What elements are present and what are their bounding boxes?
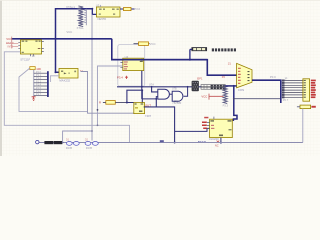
IC U4 box [123, 58, 144, 70]
resistor R2 lead [134, 43, 150, 45]
driver U2 MAX232 box [59, 69, 78, 79]
wire branch into gate upper input [152, 87, 158, 92]
power symbol red [209, 94, 223, 100]
wire branch to U5 left pins [175, 128, 210, 131]
LED DS2 pair [85, 142, 98, 146]
wire U4 left pin to long drop [98, 66, 123, 125]
resistor R2 [139, 42, 149, 46]
wire lower input [142, 97, 158, 99]
switch S1 dashed squares row [212, 48, 236, 51]
LED DS1 pair [66, 142, 79, 146]
wire P1.0 [34, 72, 48, 74]
junction main wire at U4 right [141, 59, 143, 61]
svg-text:NE555: NE555 [98, 17, 107, 21]
fuse F1 [192, 48, 207, 51]
svg-text:VCC: VCC [150, 42, 156, 46]
svg-text:U7A: U7A [149, 83, 154, 87]
wire from R4 down to bottom net [302, 109, 304, 143]
wire P1.1 [34, 75, 48, 77]
wire R3 into U6 [127, 102, 134, 104]
wire from U2 right pin down to U6 bottom [81, 72, 134, 114]
labels red left of U5 [202, 122, 207, 130]
wire: long route from U1 bottom-left pin around the sheet [4, 52, 129, 143]
diode D2 dark body [54, 141, 63, 144]
svg-text:P3.3: P3.3 [223, 104, 229, 108]
junction branch [151, 86, 153, 88]
svg-text:P3.7: P3.7 [174, 100, 180, 104]
bus bar P1 [47, 71, 49, 97]
junction loop top [141, 89, 143, 91]
wire riser from U6 output [155, 99, 157, 107]
wire: main thick net down and across [112, 39, 237, 75]
power symbol red below U4 [125, 76, 128, 79]
connector ladder row2 [201, 87, 225, 89]
svg-text:U3: U3 [96, 3, 100, 7]
power rail VCC bus top of U1 [11, 38, 112, 40]
wire P1.6 [34, 91, 48, 93]
wire U5 bottom pin [220, 138, 222, 143]
svg-text:D1: D1 [66, 138, 70, 142]
svg-text:RST/P: RST/P [6, 41, 14, 45]
wire horizontal feed net [117, 86, 202, 88]
svg-text:XTAL: XTAL [77, 26, 85, 30]
wire: drop into U3 pin2 [92, 9, 96, 15]
ground GND red [32, 97, 36, 101]
resistor R1 lead [120, 8, 134, 10]
junction bridge right [91, 130, 93, 132]
wire thin to connector bus [234, 98, 281, 100]
wire: long thin vertical net at x=92 [91, 14, 93, 140]
junction R3 net [126, 102, 128, 104]
connector CON8 pin rows [282, 80, 303, 99]
svg-text:BEEP: BEEP [198, 140, 206, 144]
svg-text:NC: NC [215, 144, 219, 148]
wire P1.5 [34, 88, 48, 90]
svg-text:R: R [99, 100, 101, 104]
background sheet [0, 0, 320, 156]
group box A around U4 [118, 45, 145, 87]
bottom net wire [39, 142, 303, 144]
svg-text:7407: 7407 [145, 114, 152, 118]
wire P1.7 [34, 95, 48, 97]
wire gate1 out to gate2 in [170, 93, 173, 95]
pane top border [0, 0, 320, 2]
label red right of R4 [311, 106, 315, 108]
junction U6 out riser [174, 142, 176, 144]
wire J1 output to bus [252, 80, 281, 103]
crystal Y1 side rail [84, 9, 86, 26]
svg-text:P3.0: P3.0 [134, 7, 140, 11]
wire P1.4 [34, 85, 48, 87]
wire F1 stub to main [190, 49, 192, 59]
junction gate nets [141, 86, 143, 88]
svg-text:D2: D2 [85, 138, 89, 142]
gate U7B [172, 91, 183, 101]
svg-text:VCC: VCC [201, 95, 207, 99]
U5 pins left [207, 122, 210, 128]
R4 lead [297, 106, 300, 108]
MCU U1 box [21, 40, 42, 54]
svg-text:STC11F: STC11F [20, 57, 30, 61]
svg-text:MAX232: MAX232 [59, 78, 70, 82]
wire loop over U6 [127, 90, 142, 102]
indicator DS0 ring [36, 140, 39, 143]
svg-text:P0.7: P0.7 [283, 98, 289, 102]
svg-text:P2: P2 [222, 75, 226, 79]
wire from U4 bottom-right pin down to gate [141, 71, 143, 99]
diode D1 dark body [44, 141, 53, 144]
IC U5 box [210, 119, 233, 137]
connector J1 trapezoid [237, 63, 252, 87]
IC U6 box [134, 103, 145, 114]
op-amp U3 box [97, 5, 121, 17]
junction W2 into U2 [55, 71, 57, 73]
label red above U5 [204, 117, 208, 119]
svg-text:U4: U4 [125, 55, 129, 59]
junction F1 on main [189, 59, 191, 61]
wire lower pin into J1 [225, 85, 236, 87]
pane left border [0, 0, 2, 156]
junction bus x55.5 [55, 38, 57, 40]
svg-text:JP: JP [284, 77, 287, 81]
wire bridge over LEDs [63, 131, 92, 143]
R3 leads [103, 101, 127, 103]
junction drop meets route [97, 124, 99, 126]
resistor R4 small right [300, 105, 311, 109]
svg-text:CON: CON [238, 88, 244, 92]
junction gate output riser [187, 86, 189, 88]
svg-text:4N35: 4N35 [66, 146, 73, 150]
svg-text:P3.4: P3.4 [117, 75, 123, 79]
labels P1.x nets [36, 71, 42, 96]
inductor L1 zigzag column [223, 85, 227, 103]
svg-text:VCC: VCC [66, 30, 72, 34]
wire U6 output to U5 [144, 107, 175, 143]
wire P1.3 [34, 82, 48, 84]
net tick small middle [160, 140, 164, 142]
resistor R3 [106, 101, 116, 105]
junction bus x92 [91, 38, 93, 40]
connector CON8 body [303, 79, 310, 101]
svg-text:4N35: 4N35 [86, 146, 93, 150]
junction on drop [97, 109, 99, 111]
gate U7A [158, 89, 170, 99]
wire down to U5 top [233, 86, 237, 121]
labels red CON8 nets [311, 80, 316, 99]
junction thin net [233, 98, 235, 100]
U1 pins left [18, 42, 20, 48]
connector ladder row1 [201, 85, 225, 87]
wire: net from RP1 left end down-left [19, 68, 88, 111]
svg-text:U7B: U7B [172, 88, 177, 91]
U4 pins left [120, 62, 122, 67]
junction bottom at bridge [62, 142, 64, 144]
wire P1.2 [34, 79, 48, 81]
resistor RP1 pull-up [30, 67, 35, 70]
junction U5 bottom [220, 142, 222, 144]
wire: vertical through P1 fan [33, 70, 35, 97]
wire: crystal net top horizontal [56, 8, 93, 10]
junction at U3 feed [91, 8, 93, 10]
no-ERC red cross [217, 141, 220, 143]
U1 pins right [42, 42, 44, 52]
svg-text:XTAL1: XTAL1 [66, 5, 75, 9]
svg-text:P1.7: P1.7 [36, 93, 42, 96]
junction trap lower [233, 85, 235, 87]
svg-text:P0.0: P0.0 [270, 75, 276, 79]
svg-text:J1: J1 [228, 62, 231, 66]
U5 pin top [213, 117, 215, 120]
junction lower input riser [155, 98, 157, 100]
crystal Y1 zigzag [78, 6, 83, 27]
svg-text:ISP1: ISP1 [197, 77, 203, 81]
wire: left vertical drop to RS232 box [56, 8, 60, 72]
header JP1 dark block [192, 81, 199, 91]
wire red stub into U1 [7, 44, 19, 47]
resistor R1 [124, 8, 132, 11]
svg-text:ULN200: ULN200 [209, 137, 219, 141]
wire main over U4 [112, 59, 208, 61]
wire small L left of U2 [50, 76, 59, 82]
U1 pins bottom [31, 54, 34, 56]
wire gate output [184, 87, 188, 96]
